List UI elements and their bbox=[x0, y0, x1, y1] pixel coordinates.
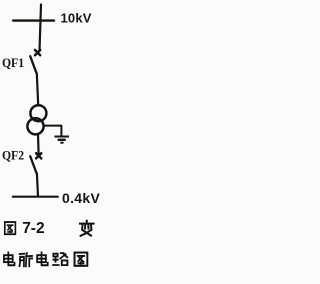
caption line 2: hanzi LU (road) bbox=[53, 253, 67, 265]
circuit breaker QF2 blade bbox=[30, 156, 37, 173]
circuit breaker QF1 blade bbox=[30, 56, 36, 73]
svg-text:10kV: 10kV bbox=[61, 10, 92, 25]
svg-text:0.4kV: 0.4kV bbox=[62, 190, 100, 206]
caption line 2: hanzi DIAN (electric) bbox=[37, 252, 48, 265]
svg-text:QF2: QF2 bbox=[2, 148, 24, 163]
0.4kV busbar bbox=[13, 196, 58, 198]
caption line 2: hanzi SUO (place) bbox=[19, 253, 32, 266]
wire QF1 to transformer primary bbox=[37, 73, 38, 105]
wire transformer neutral to ground bbox=[44, 126, 62, 136]
ground bbox=[54, 137, 69, 143]
caption line 2: hanzi TU (figure) bbox=[75, 253, 88, 266]
caption line 1: hanzi TU (figure) bbox=[5, 222, 16, 234]
circuit breaker QF1 fixed contact (x mark) bbox=[35, 50, 40, 55]
caption line 2: hanzi DIAN (electric) bbox=[4, 252, 15, 265]
10kV busbar bbox=[13, 19, 54, 21]
wire QF2 to 0.4kV busbar bbox=[37, 173, 38, 196]
svg-text:7-2: 7-2 bbox=[22, 220, 44, 237]
incoming 10kV feeder wire bbox=[40, 5, 42, 52]
transformer T secondary winding bbox=[27, 118, 43, 134]
circuit breaker QF2 fixed contact (x mark) bbox=[36, 153, 41, 158]
svg-text:QF1: QF1 bbox=[2, 55, 24, 70]
transformer T primary winding bbox=[30, 105, 46, 121]
caption line 1: hanzi BIAN (transform) bbox=[80, 221, 94, 236]
wire transformer secondary to QF2 bbox=[37, 135, 40, 154]
